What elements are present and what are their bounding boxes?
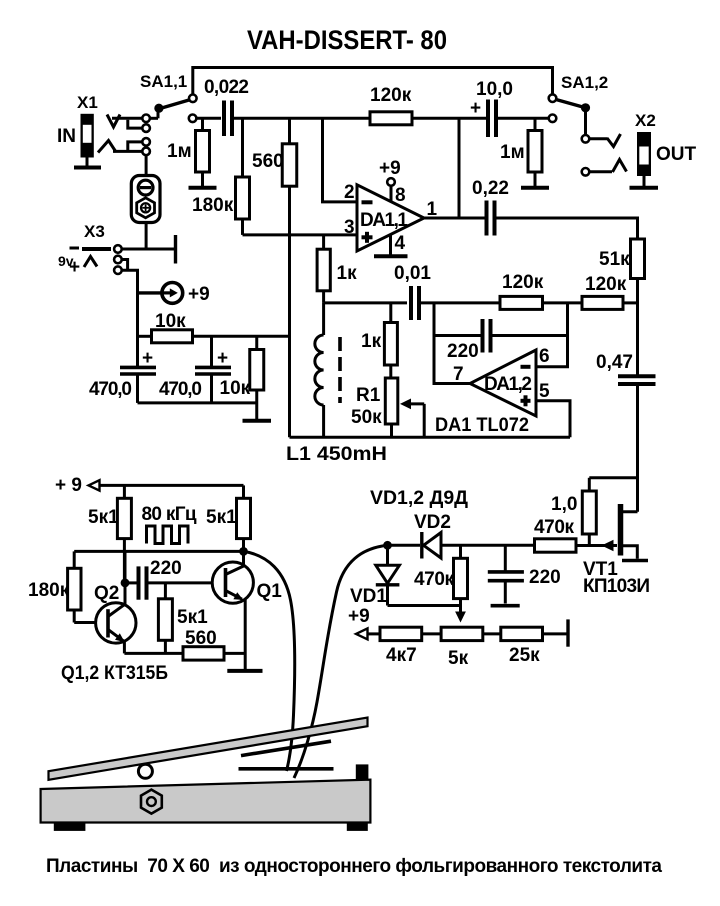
- capacitor 470,0 #2: [159, 348, 231, 400]
- wire bypass top: [193, 68, 553, 96]
- wire 25к to end bar: [543, 632, 568, 635]
- svg-text:+ 9: + 9: [55, 475, 82, 496]
- switch SA1,1: [140, 72, 197, 118]
- wire bias right: [193, 335, 289, 338]
- node contact 2: [142, 124, 150, 132]
- ground 1м input: [189, 186, 217, 190]
- wire to 0,022: [196, 117, 221, 120]
- svg-text:Q2: Q2: [94, 583, 119, 604]
- svg-text:R1: R1: [356, 385, 381, 406]
- wire 0,01 to 120к: [421, 301, 500, 304]
- wire pin6 vertical: [536, 303, 568, 367]
- svg-text:Q1,2 КТ315Б: Q1,2 КТ315Б: [61, 663, 168, 684]
- svg-text:X3: X3: [84, 222, 105, 241]
- wire bracket contact 2: [128, 120, 143, 128]
- square wave symbol: [147, 526, 189, 544]
- wire VD2 to 470к: [441, 544, 535, 547]
- svg-text:5к1: 5к1: [206, 507, 237, 528]
- capacitor 470,0 #1: [89, 348, 156, 400]
- resistor 470к vertical: [414, 545, 468, 622]
- potentiometer R1 50к: [351, 378, 424, 437]
- wire bias left: [138, 335, 152, 338]
- svg-text:1к: 1к: [337, 263, 358, 284]
- resistor 180к multivibrator: [28, 551, 81, 622]
- svg-text:VAH-DISSERT- 80: VAH-DISSERT- 80: [247, 25, 447, 55]
- wire collector cross row: [74, 550, 243, 553]
- node SA1,1 throw: [189, 115, 197, 123]
- svg-text:4: 4: [395, 233, 406, 254]
- wire main top row: [234, 117, 370, 120]
- wire X2 tip hook: [589, 134, 620, 147]
- wire 5к to 25к: [483, 632, 501, 635]
- svg-text:220: 220: [150, 558, 182, 579]
- svg-text:+9: +9: [379, 158, 401, 179]
- svg-text:0,22: 0,22: [472, 178, 509, 199]
- connector X3: [58, 222, 122, 278]
- wire main rail vertical: [288, 186, 291, 437]
- wire node to VD2: [388, 544, 421, 547]
- connector X2: [635, 111, 697, 186]
- capacitor 0,022: [204, 77, 249, 136]
- node contact 4: [142, 148, 150, 156]
- resistor 5к1 left: [88, 485, 131, 583]
- pedal foot left: [54, 823, 86, 831]
- svg-text:X2: X2: [635, 111, 656, 130]
- pin 4 ground lead: [391, 233, 406, 256]
- svg-text:180к: 180к: [28, 580, 70, 601]
- wire curve to pedal right: [294, 545, 388, 778]
- svg-text:10к: 10к: [220, 378, 251, 399]
- X1 sleeve contact hook: [98, 141, 116, 153]
- node Q1 collector: [239, 547, 248, 556]
- svg-text:470к: 470к: [534, 517, 574, 538]
- svg-text:OUT: OUT: [656, 144, 697, 165]
- svg-text:КП103И: КП103И: [583, 576, 650, 597]
- wire filter node row: [324, 301, 407, 304]
- base hex bolt: [141, 790, 162, 814]
- svg-text:VD2: VD2: [414, 512, 451, 533]
- svg-text:7: 7: [453, 364, 464, 385]
- capacitor 0,22: [472, 178, 509, 236]
- svg-text:L1 450mH: L1 450mH: [286, 444, 387, 465]
- svg-text:120к: 120к: [370, 85, 412, 106]
- svg-text:470к: 470к: [414, 569, 454, 590]
- svg-text:1к: 1к: [361, 331, 382, 352]
- plate terminal 220: [491, 604, 520, 608]
- wire +9 multivibrator rail: [99, 484, 244, 487]
- ground 1м output: [521, 186, 549, 190]
- diode VD1: [350, 545, 399, 607]
- node contact 1: [142, 115, 150, 123]
- resistor 10к vertical: [220, 350, 264, 400]
- node contact 3: [142, 138, 150, 146]
- wire curve to pedal left: [244, 551, 295, 771]
- pedal hinge roller: [138, 764, 152, 778]
- svg-text:220: 220: [529, 567, 561, 588]
- svg-text:SA1,1: SA1,1: [140, 72, 187, 91]
- wire X1 tip: [112, 117, 142, 120]
- svg-text:1,0: 1,0: [551, 494, 577, 515]
- svg-text:DA1,1: DA1,1: [360, 210, 408, 231]
- svg-text:1м: 1м: [500, 142, 525, 163]
- pedal stop knob: [356, 764, 369, 779]
- plate terminal VT1 source: [622, 559, 648, 563]
- resistor 1,0: [551, 478, 596, 546]
- inductor L1: [315, 303, 340, 437]
- power source +9 arrow: [138, 283, 210, 306]
- wire junction vertical 459: [458, 118, 461, 218]
- wire X3 middle elbow: [122, 260, 128, 271]
- svg-text:VD1,2 Д9Д: VD1,2 Д9Д: [370, 488, 468, 509]
- wire X1 sleeve: [113, 150, 142, 153]
- svg-text:470,0: 470,0: [89, 379, 132, 400]
- wire pin5: [536, 401, 570, 437]
- svg-text:5к1: 5к1: [88, 507, 119, 528]
- wire VD1 bottom: [388, 604, 461, 607]
- svg-text:5к1: 5к1: [177, 607, 208, 628]
- connector X1: [57, 93, 98, 166]
- wire 0,22 to 51к: [497, 218, 638, 239]
- wire bracket contact 3: [128, 142, 143, 150]
- svg-text:+: +: [470, 98, 481, 119]
- transistor Q2: [94, 583, 136, 643]
- resistor 120к second: [500, 272, 544, 309]
- svg-text:470,0: 470,0: [159, 379, 202, 400]
- wire ground bus caps: [138, 401, 257, 404]
- switch SA1,2: [549, 73, 609, 176]
- svg-text:DA1 TL072: DA1 TL072: [435, 415, 529, 436]
- resistor 470к gate: [534, 517, 576, 552]
- svg-text:0,022: 0,022: [204, 77, 249, 98]
- svg-text:X1: X1: [77, 93, 98, 112]
- resistor 120к feedback DA1,1: [370, 85, 412, 125]
- svg-text:+9: +9: [348, 606, 370, 627]
- op-amp DA1,1: [357, 185, 424, 251]
- wire DA1,1 output: [422, 217, 485, 220]
- wire 51к down: [636, 279, 639, 376]
- capacitor 0,47: [596, 352, 656, 384]
- wire DA1,2 output vertical: [434, 303, 470, 384]
- wire between 120к: [543, 301, 583, 304]
- X1 tip contact hook: [107, 115, 120, 128]
- svg-text:120к: 120к: [585, 274, 627, 295]
- resistor 560 multivibrator: [183, 628, 224, 660]
- svg-text:560: 560: [252, 151, 284, 172]
- ground X2: [630, 186, 659, 190]
- arrow +9 depth: [356, 628, 368, 639]
- wire gate: [576, 544, 617, 547]
- wire cap2 leads: [210, 336, 213, 403]
- gate arrow: [602, 540, 614, 551]
- resistor 1м input: [167, 118, 210, 186]
- wire cap1 bottom: [136, 374, 139, 403]
- wire Q2 base: [74, 621, 106, 624]
- svg-text:5к: 5к: [448, 648, 469, 669]
- resistor 5к1 right: [206, 485, 251, 555]
- svg-text:51к: 51к: [599, 249, 630, 270]
- svg-text:IN: IN: [57, 126, 76, 147]
- wire 0,47 to VT1 drain: [636, 384, 639, 512]
- wire 560 to emitter Q1: [224, 652, 245, 655]
- wire 10к vertical leads: [255, 336, 258, 419]
- wire contact4 to terminal: [145, 155, 148, 175]
- chassis terminal bar: [174, 235, 177, 264]
- capacitor 0,01: [394, 263, 431, 320]
- wire 4к7 to 5к: [422, 632, 441, 635]
- capacitor 220 DA1,2: [434, 319, 568, 362]
- wire Q1 emitter down: [244, 600, 247, 670]
- wire X2 sleeve hook: [589, 160, 626, 173]
- node LFO junction: [383, 541, 392, 550]
- resistor 1м output: [500, 118, 542, 186]
- svg-text:220: 220: [447, 341, 479, 362]
- wire 120к to 51к node: [623, 301, 638, 304]
- svg-text:VD1: VD1: [350, 586, 387, 607]
- resistor 25к: [501, 627, 543, 666]
- svg-text:50к: 50к: [351, 407, 382, 428]
- potentiometer 5к: [441, 627, 483, 669]
- svg-text:Пластины 70 X 60 из одностор: Пластины 70 X 60 из одностороннего фольг…: [46, 856, 662, 877]
- svg-text:+9: +9: [188, 284, 210, 305]
- svg-text:180к: 180к: [192, 195, 234, 216]
- pedal top plate: [49, 718, 368, 780]
- resistor 120к third: [582, 274, 627, 309]
- wire pin 3: [243, 233, 358, 236]
- transistor VT1 КП103И: [583, 504, 650, 597]
- svg-text:120к: 120к: [502, 272, 544, 293]
- node Q2 collector: [121, 579, 130, 588]
- terminal bar depth row: [566, 619, 569, 646]
- wire X3 minus to chassis: [122, 248, 176, 251]
- svg-text:8: 8: [395, 185, 406, 206]
- svg-text:10,0: 10,0: [476, 79, 513, 100]
- wire emitter to 560: [124, 652, 183, 655]
- node SA1,2 throw: [549, 115, 557, 123]
- resistor 1к mid: [361, 303, 397, 378]
- resistor 4к7: [380, 627, 422, 666]
- resistor 10к bias: [152, 311, 193, 343]
- wire VT1 top bend: [589, 476, 637, 479]
- svg-text:0,01: 0,01: [394, 263, 431, 284]
- resistor 5к1 middle: [158, 583, 208, 654]
- op-amp DA1,2: [470, 350, 536, 416]
- wire terminal to X3 node: [145, 223, 148, 251]
- pin 8 +9 supply: [379, 158, 406, 206]
- wire arrow to 4к7: [367, 632, 380, 635]
- arrow +9 multivibrator: [89, 480, 100, 490]
- svg-text:Q1: Q1: [257, 581, 283, 602]
- wire Q2 collector: [124, 551, 127, 604]
- capacitor plate fixed: [239, 767, 334, 771]
- svg-text:25к: 25к: [509, 645, 540, 666]
- capacitor 220 VT1: [488, 545, 561, 603]
- terminal block with screws: [131, 176, 160, 223]
- wire box bottom: [290, 436, 571, 439]
- transistor Q1: [212, 562, 282, 603]
- resistor 51к: [599, 239, 645, 279]
- svg-text:6: 6: [539, 346, 550, 367]
- wire Q1 collector: [242, 551, 245, 567]
- svg-text:4к7: 4к7: [386, 645, 417, 666]
- ground X1: [74, 166, 101, 170]
- wire 10,0 to contact: [498, 117, 549, 120]
- svg-text:2: 2: [344, 182, 355, 203]
- svg-text:5: 5: [539, 381, 550, 402]
- wire X3 plus rail: [122, 270, 138, 367]
- capacitor plate moving: [241, 741, 331, 755]
- svg-text:+: +: [69, 257, 80, 278]
- svg-text:SA1,2: SA1,2: [561, 73, 608, 92]
- pedal base: [41, 780, 371, 823]
- resistor 1к pin3: [317, 235, 357, 303]
- ground bias: [243, 419, 272, 423]
- ground DA1,1 pin4: [374, 254, 408, 258]
- resistor 560: [252, 118, 297, 186]
- capacitor 10,0: [470, 79, 513, 137]
- diode VD2: [414, 512, 451, 559]
- resistor 180к input: [192, 118, 250, 235]
- wire pin 2 feedback: [323, 118, 358, 202]
- capacitor 220 multivibrator: [125, 558, 182, 600]
- wire to pivot: [150, 117, 158, 120]
- svg-text:1м: 1м: [167, 141, 192, 162]
- wire Q2 emitter row: [123, 642, 126, 654]
- svg-text:80 кГц: 80 кГц: [142, 504, 197, 525]
- svg-text:DA1,2: DA1,2: [484, 374, 532, 395]
- ground multivibrator: [227, 669, 262, 673]
- svg-text:0,47: 0,47: [596, 352, 633, 373]
- wire 120к to 10,0: [412, 117, 486, 120]
- wire 220 to Q1 base: [149, 581, 214, 584]
- pedal foot right: [347, 823, 368, 831]
